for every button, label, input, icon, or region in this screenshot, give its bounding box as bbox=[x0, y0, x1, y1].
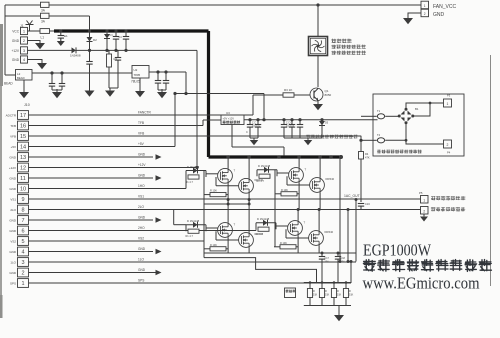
svg-text:51K: 51K bbox=[349, 294, 354, 297]
capacitor C7 bbox=[60, 71, 63, 74]
svg-text:C C C: C C C bbox=[286, 123, 293, 125]
pin2 ground bbox=[28, 41, 41, 44]
resistor R9 gate bbox=[188, 229, 199, 233]
svg-text:16: 16 bbox=[20, 124, 26, 130]
pin 1 VCC bbox=[21, 27, 28, 34]
svg-text:9: 9 bbox=[21, 197, 24, 203]
fan M1 symbol bbox=[317, 5, 319, 36]
relay box K1 bbox=[285, 288, 296, 298]
wire T2 to bridge leg bbox=[385, 139, 406, 141]
wire col x276 bbox=[274, 170, 276, 247]
svg-text:+12V: +12V bbox=[11, 49, 19, 53]
ground resistor bank bbox=[338, 306, 340, 315]
pin 4 GND bbox=[18, 247, 29, 256]
wire GND row 13 bbox=[29, 156, 154, 158]
svg-text:SPS: SPS bbox=[138, 279, 144, 283]
svg-text:D2: D2 bbox=[93, 38, 97, 42]
wire fan to Q1 bbox=[317, 56, 319, 88]
svg-text:1LO: 1LO bbox=[10, 261, 16, 265]
resistor R14 51K bbox=[321, 283, 323, 289]
svg-text:2LO: 2LO bbox=[138, 205, 145, 209]
pin 7 GND bbox=[18, 216, 29, 225]
svg-text:7: 7 bbox=[21, 218, 24, 224]
svg-text:EGP1000W: EGP1000W bbox=[363, 241, 432, 260]
wire source Q8 bbox=[297, 235, 299, 253]
fan annotation text bbox=[332, 39, 352, 43]
wire VS1 row / AC out 1 bbox=[29, 198, 421, 200]
mosfet Q3 bbox=[239, 178, 254, 193]
ground for C6 C7 bbox=[52, 89, 62, 91]
svg-text:GND: GND bbox=[138, 216, 146, 220]
svg-text:GND: GND bbox=[9, 187, 17, 191]
svg-text:VS2: VS2 bbox=[10, 240, 16, 244]
pin 2 GND bbox=[18, 268, 29, 277]
wire into P2 bbox=[361, 139, 377, 141]
transformer box outline bbox=[373, 94, 464, 156]
svg-text:10u 104: 10u 104 bbox=[286, 126, 295, 128]
wire drain Q5 bbox=[319, 157, 321, 178]
svg-text:C: C bbox=[246, 130, 248, 134]
wire +12V drop to drivers bbox=[196, 50, 198, 167]
pin 15 VFB bbox=[18, 132, 29, 141]
svg-text:GND: GND bbox=[138, 153, 146, 157]
wire +5V branch right bbox=[175, 93, 264, 95]
wire +5V down from U2 bbox=[185, 72, 187, 94]
svg-text:VCC: VCC bbox=[12, 29, 19, 33]
wire +5V row bbox=[29, 146, 176, 148]
bootstrap +12V rail bbox=[244, 119, 378, 121]
svg-text:VS1: VS1 bbox=[10, 198, 16, 202]
capacitor C14 bbox=[290, 118, 293, 121]
svg-text:15: 15 bbox=[20, 134, 26, 140]
wire source Q9 bbox=[318, 245, 320, 253]
svg-text:1LO: 1LO bbox=[138, 258, 145, 262]
svg-text:IRF540: IRF540 bbox=[325, 230, 334, 234]
capacitor C17 104 bbox=[321, 253, 323, 256]
svg-text:2LO: 2LO bbox=[10, 208, 16, 212]
sheet right border line bbox=[490, 55, 492, 286]
svg-text:1: 1 bbox=[424, 4, 426, 8]
wire TFB row bbox=[29, 125, 204, 127]
jumper P2 bbox=[377, 138, 384, 143]
resistor R3 base bbox=[253, 94, 283, 96]
svg-text:2: 2 bbox=[424, 12, 426, 16]
svg-text:14: 14 bbox=[20, 145, 26, 151]
svg-text:C C: C C bbox=[252, 123, 256, 125]
pin 3 +12V bbox=[21, 47, 28, 54]
svg-text:GND: GND bbox=[138, 268, 146, 272]
pin 10 GND bbox=[18, 184, 29, 193]
capacitor C10 bbox=[164, 70, 167, 73]
inductor L1 bbox=[30, 30, 41, 32]
label sine 220V output 2 bbox=[431, 207, 465, 211]
svg-text:GND: GND bbox=[9, 250, 17, 254]
resistor R11 gate bbox=[258, 227, 269, 231]
svg-text:8050: 8050 bbox=[325, 93, 332, 97]
svg-text:U2: U2 bbox=[134, 68, 138, 72]
wire source Q3 bbox=[248, 193, 250, 204]
resistor R16 51K bbox=[345, 283, 347, 289]
svg-text:IRF540: IRF540 bbox=[326, 177, 335, 181]
svg-text:GND: GND bbox=[12, 39, 20, 43]
wire bridge to pin1 bbox=[406, 103, 444, 109]
svg-text:GND: GND bbox=[138, 247, 146, 251]
svg-text:51K: 51K bbox=[337, 294, 342, 297]
wire FANCTR row bbox=[29, 114, 254, 116]
svg-text:1: 1 bbox=[21, 281, 24, 287]
ground for C9 C10 bbox=[158, 89, 166, 91]
capacitor C9 bbox=[156, 70, 159, 73]
ground C13 C14 C15 D3 bbox=[284, 137, 322, 139]
diode D1 series bbox=[72, 47, 77, 53]
pin 2 GND bbox=[21, 37, 28, 44]
wire gate Q3 bbox=[216, 185, 239, 187]
pin 5 VS2 bbox=[18, 237, 29, 246]
junction bus x279 bbox=[277, 155, 281, 159]
wire gate Q8 bbox=[276, 225, 288, 227]
svg-text:104: 104 bbox=[341, 261, 346, 264]
capacitor C15 bbox=[298, 118, 301, 121]
svg-text:FAN_VCC: FAN_VCC bbox=[433, 4, 456, 10]
bottom source rail bbox=[204, 252, 356, 254]
wire source Q7 bbox=[248, 247, 250, 253]
svg-text:12: 12 bbox=[20, 166, 26, 172]
transistor Q1 bbox=[310, 88, 323, 101]
svg-text:GND: GND bbox=[9, 156, 17, 160]
wire source Q4 bbox=[298, 182, 300, 209]
mosfet Q7 bbox=[239, 233, 254, 248]
svg-text:5: 5 bbox=[21, 239, 24, 245]
svg-text:1: 1 bbox=[423, 198, 425, 202]
svg-text:P5: P5 bbox=[419, 191, 423, 195]
wire col x356 bbox=[355, 200, 357, 262]
wire +5V output bbox=[149, 71, 186, 73]
svg-text:GND: GND bbox=[9, 177, 17, 181]
wire gate Q6 bbox=[206, 227, 218, 229]
svg-text:VS2: VS2 bbox=[138, 237, 144, 241]
svg-text:www.EGmicro.com: www.EGmicro.com bbox=[363, 274, 480, 293]
svg-text:13: 13 bbox=[20, 155, 26, 161]
svg-text:J10: J10 bbox=[24, 103, 30, 107]
wire 2HO row bbox=[29, 230, 257, 232]
svg-text:1: 1 bbox=[447, 102, 449, 106]
wire left border vertical bbox=[4, 5, 6, 75]
thick +BAT bus horizontal top bbox=[54, 29, 209, 32]
svg-text:GND: GND bbox=[138, 174, 146, 178]
wire drains bottom-left pair bbox=[227, 200, 229, 223]
svg-text:51K: 51K bbox=[313, 294, 318, 297]
wire gate Q2 bbox=[206, 173, 218, 175]
power flag VCC bbox=[28, 30, 30, 32]
capacitor C5 bbox=[124, 29, 127, 32]
title chinese line bbox=[363, 260, 491, 272]
svg-text:R1 4.7: R1 4.7 bbox=[256, 233, 264, 236]
capacitor C6 bbox=[50, 71, 53, 74]
connector pin T1 bbox=[444, 99, 452, 107]
regulator U2 78L05 bbox=[132, 66, 149, 79]
svg-text:VFB: VFB bbox=[138, 132, 144, 136]
svg-text:VS1: VS1 bbox=[138, 195, 144, 199]
wire bridge to pin2 bbox=[406, 123, 444, 144]
connector P7 FAN bbox=[421, 1, 429, 9]
wire drains bottom-right pair bbox=[297, 210, 299, 221]
wire SPS row 1 / divider rail bbox=[29, 282, 352, 284]
resistor R2 divider bbox=[108, 50, 110, 54]
ground output bbox=[423, 214, 425, 216]
pin 17 ADCTR bbox=[18, 111, 29, 120]
bootstrap note text bbox=[306, 135, 357, 139]
junction bus x331 bbox=[329, 155, 333, 159]
svg-text:GND: GND bbox=[9, 219, 17, 223]
resistor R13 51K bbox=[309, 283, 311, 289]
svg-text:U3: U3 bbox=[226, 111, 230, 115]
capacitor C4 bbox=[114, 29, 117, 32]
pin 13 GND bbox=[18, 153, 29, 162]
wire gate Q7 bbox=[216, 239, 239, 241]
ground C11 C12 bbox=[250, 137, 258, 139]
pin4 ground bbox=[28, 60, 43, 63]
wire gate Q4 bbox=[277, 172, 289, 174]
wire col x204 bbox=[203, 171, 205, 258]
svg-text:+12V: +12V bbox=[9, 166, 16, 170]
wire VFB vertical bbox=[360, 136, 362, 152]
capacitor C11 bbox=[248, 118, 251, 121]
wire AC out 2 bbox=[165, 209, 421, 211]
svg-text:2: 2 bbox=[21, 271, 24, 277]
mosfet Q5 bbox=[310, 178, 325, 193]
ground pin of U2 bbox=[139, 78, 141, 90]
svg-text:BEAD: BEAD bbox=[4, 82, 13, 86]
wire GND row 4 bbox=[29, 251, 154, 253]
wire source Q6 bbox=[227, 237, 229, 253]
svg-text:2: 2 bbox=[423, 209, 425, 213]
pin 1 SPS bbox=[18, 279, 29, 288]
svg-text:R3 1K: R3 1K bbox=[284, 88, 292, 92]
svg-text:47K: 47K bbox=[365, 156, 370, 160]
pin 9 VS1 bbox=[18, 195, 29, 204]
fuse F2 on second rail bbox=[41, 13, 50, 18]
svg-text:+5V: +5V bbox=[11, 145, 16, 149]
svg-text:R4: R4 bbox=[365, 152, 369, 156]
capacitor C2 on +12V vertical bbox=[89, 50, 91, 61]
wire source Q2 bbox=[227, 183, 229, 204]
svg-text:FANCTR: FANCTR bbox=[138, 111, 151, 115]
svg-text:SPS: SPS bbox=[10, 282, 16, 286]
svg-text:78L05: 78L05 bbox=[131, 80, 140, 84]
wire +12V feed rail bbox=[5, 15, 90, 17]
svg-text:104 10u: 104 10u bbox=[252, 126, 261, 128]
svg-text:4: 4 bbox=[21, 250, 24, 256]
svg-text:1N5408: 1N5408 bbox=[70, 54, 81, 58]
bridge rectifier B1 bbox=[401, 111, 412, 122]
mosfet Q4 bbox=[289, 168, 304, 183]
jumper P1 bbox=[377, 114, 384, 119]
thick +BAT bus vertical bbox=[207, 31, 210, 157]
pin 12 +12V bbox=[18, 163, 29, 172]
svg-text:GND: GND bbox=[433, 12, 445, 18]
svg-text:E1: E1 bbox=[64, 34, 68, 38]
capacitor C8 bbox=[117, 50, 119, 57]
svg-text:10: 10 bbox=[20, 187, 26, 193]
wire gate-return to divider bbox=[204, 258, 317, 283]
ferrite bead FB1 bbox=[16, 70, 33, 81]
wire col x348 bbox=[347, 210, 349, 262]
svg-text:C16: C16 bbox=[365, 202, 370, 206]
mosfet Q6 bbox=[218, 223, 233, 238]
ground Q1 emitter bbox=[317, 101, 319, 104]
wire top FAN_VCC rail bbox=[5, 4, 421, 6]
capacitor C18 104 bbox=[337, 253, 339, 256]
svg-text:BEAD: BEAD bbox=[17, 76, 25, 80]
svg-text:7805: 7805 bbox=[134, 73, 141, 77]
svg-text:+5V +12V: +5V +12V bbox=[223, 117, 235, 121]
pin 3 1LO bbox=[18, 258, 29, 267]
svg-text:R1 4.7: R1 4.7 bbox=[257, 180, 265, 183]
wire GND row 2 bbox=[29, 272, 156, 274]
wire source Q5 bbox=[319, 192, 321, 209]
pin 14 +5V bbox=[18, 142, 29, 151]
capacitor C16 output filter bbox=[360, 200, 362, 203]
resistor R7 gate bbox=[259, 174, 270, 178]
diode D2 to +12V rail bbox=[88, 29, 91, 32]
junction bus end bbox=[339, 155, 343, 159]
svg-text:GND: GND bbox=[9, 229, 17, 233]
svg-text:1HO: 1HO bbox=[138, 184, 145, 188]
wire +5V down to header row bbox=[174, 94, 176, 147]
divider top rail bbox=[304, 282, 351, 284]
capacitor C12 bbox=[256, 118, 259, 121]
svg-text:2: 2 bbox=[447, 143, 449, 147]
resistor R5 gate bbox=[188, 175, 199, 179]
svg-text:GND: GND bbox=[12, 58, 20, 62]
svg-text:B1: B1 bbox=[415, 107, 419, 111]
svg-text:3: 3 bbox=[21, 260, 24, 266]
wire GND row 11 bbox=[29, 177, 154, 179]
wire +12V row from pin3 bbox=[28, 49, 72, 51]
pin 16 TFB bbox=[18, 121, 29, 130]
scan left-edge artifact bbox=[0, 24, 2, 318]
wire resistor bank bottom bbox=[304, 305, 351, 307]
svg-text:TFB: TFB bbox=[138, 121, 144, 125]
svg-text:GND: GND bbox=[9, 271, 17, 275]
wire VS2 row bbox=[29, 240, 205, 242]
ground under bead bbox=[23, 80, 25, 92]
ground fan connector bbox=[408, 13, 421, 18]
wire gate Q5 bbox=[287, 184, 310, 186]
connector pin T2 bbox=[444, 140, 452, 148]
resistor R15 51K bbox=[333, 283, 335, 289]
connector P6 AC output 2 bbox=[421, 207, 429, 215]
source rail top-left pair bbox=[204, 203, 250, 205]
wire 1HO row bbox=[29, 188, 187, 190]
wire bead output bbox=[32, 72, 132, 74]
ground R2 C8 bbox=[109, 87, 118, 89]
wire GND row 7 bbox=[29, 219, 154, 221]
capacitor C13 bbox=[282, 118, 285, 121]
pin 6 GND bbox=[18, 226, 29, 235]
mosfet Q2 bbox=[218, 168, 233, 183]
svg-text:+12V: +12V bbox=[138, 163, 146, 167]
svg-text:R1 4.7: R1 4.7 bbox=[186, 181, 194, 184]
wire FANCTR up bbox=[252, 95, 254, 115]
svg-text:VFB: VFB bbox=[10, 135, 16, 139]
wire col x351 bbox=[350, 262, 352, 284]
svg-text:2HO: 2HO bbox=[138, 226, 145, 230]
wire gate Q9 bbox=[286, 237, 309, 239]
svg-text:R1 4.7: R1 4.7 bbox=[186, 235, 194, 238]
wire 2LO row bbox=[29, 209, 174, 211]
wire 1LO row / gnd rail bbox=[29, 261, 357, 263]
thick +BAT bus lower horizontal bbox=[209, 155, 342, 158]
svg-text:+5V: +5V bbox=[138, 142, 145, 146]
wire P1 to bridge bbox=[385, 115, 398, 117]
resistor R4 47K bbox=[359, 152, 364, 160]
svg-text:L1: L1 bbox=[41, 36, 45, 40]
wire col x340 bbox=[339, 157, 341, 262]
svg-text:104: 104 bbox=[325, 261, 330, 264]
svg-text:1AC_OUT: 1AC_OUT bbox=[344, 194, 360, 198]
svg-text:ADCTR: ADCTR bbox=[6, 114, 17, 118]
wire drain Q4 bbox=[298, 157, 300, 168]
svg-text:8: 8 bbox=[21, 208, 24, 214]
fuse F1 on top rail bbox=[41, 2, 50, 7]
svg-text:17: 17 bbox=[20, 113, 26, 119]
wire U3 bottom to bus bbox=[231, 125, 233, 148]
mosfet Q9 bbox=[309, 231, 324, 246]
svg-text:P3: P3 bbox=[447, 94, 451, 98]
pin 11 GND bbox=[18, 174, 29, 183]
mosfet Q8 bbox=[288, 221, 303, 236]
pin 4 GND bbox=[21, 56, 28, 63]
transformer box label bbox=[377, 150, 421, 154]
wire TFB into U3 bbox=[203, 119, 221, 121]
label sine 220V output 1 bbox=[431, 196, 465, 200]
capacitor C3 bbox=[105, 29, 108, 32]
wire VFB row bbox=[29, 135, 362, 137]
svg-text:P4: P4 bbox=[447, 151, 451, 155]
svg-text:51K: 51K bbox=[325, 294, 330, 297]
svg-text:TFB: TFB bbox=[10, 124, 16, 128]
capacitor C1 electrolytic bbox=[59, 29, 62, 32]
wire drain Q3 bbox=[248, 157, 250, 179]
svg-text:11: 11 bbox=[20, 176, 26, 182]
svg-text:6: 6 bbox=[21, 229, 24, 235]
pin 8 2LO bbox=[18, 205, 29, 214]
wire +12V row bbox=[29, 167, 198, 169]
diode D3 bbox=[320, 118, 323, 121]
wire into P1 bbox=[361, 115, 377, 117]
wire drain Q2 bbox=[227, 157, 229, 169]
